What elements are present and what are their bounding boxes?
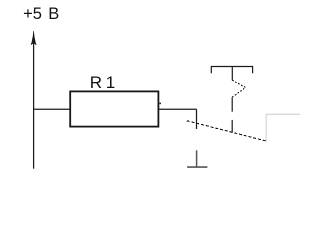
wire: switch fixed contact (vertical drop): [196, 109, 198, 129]
pushbutton actuator bracket: [211, 67, 252, 74]
resistor label R1: [90, 73, 115, 93]
pin nub on resistor right edge: [159, 103, 161, 105]
light wire: lever pivot up and right: [266, 114, 300, 141]
node +5V label: [23, 5, 59, 24]
wire: resistor to switch contact (horizontal): [158, 108, 196, 110]
ground stub: [196, 150, 198, 167]
resistor R1 body: [70, 91, 158, 126]
switch lever (moving contact, open): [187, 121, 266, 141]
ground bar: [187, 166, 207, 168]
spring zigzag: [232, 80, 245, 97]
power arrow (+5V): [31, 31, 36, 45]
actuator stem: [231, 67, 233, 81]
wire: rail to resistor: [34, 108, 71, 110]
mechanical link (dashed vertical): [231, 97, 233, 112]
wire: left vertical rail: [33, 41, 35, 169]
